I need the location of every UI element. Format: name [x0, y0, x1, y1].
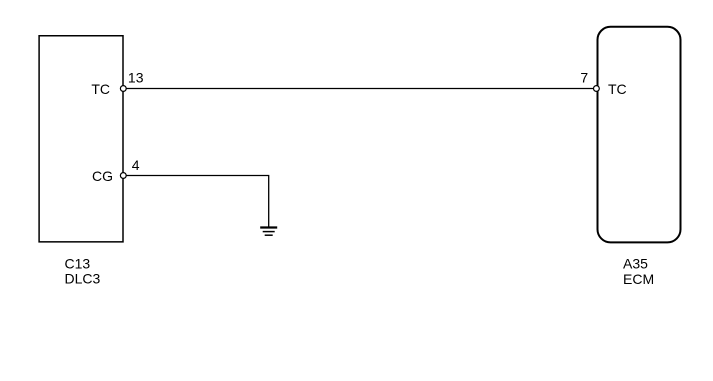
svg-text:TC: TC	[91, 81, 110, 97]
svg-text:A35: A35	[623, 256, 648, 272]
svg-text:DLC3: DLC3	[65, 271, 101, 287]
wire CG: pin 4 of DLC3 to ground	[123, 176, 268, 227]
wire TC: pin 13 of DLC3 to pin 7 of ECM	[123, 88, 596, 90]
svg-text:7: 7	[580, 70, 588, 86]
pin 4 terminal (DLC3 CG)	[120, 173, 126, 179]
ECM A35 body	[598, 27, 681, 243]
svg-text:4: 4	[132, 157, 140, 173]
pin 13 terminal (DLC3 TC)	[120, 86, 126, 92]
svg-text:CG: CG	[92, 168, 113, 184]
connector C13 (DLC3) body	[39, 36, 123, 242]
pin 7 terminal (ECM TC)	[594, 86, 600, 92]
svg-text:C13: C13	[65, 255, 91, 271]
svg-text:TC: TC	[608, 81, 627, 97]
svg-text:13: 13	[128, 70, 144, 86]
ground	[260, 228, 277, 236]
svg-text:ECM: ECM	[623, 271, 654, 287]
